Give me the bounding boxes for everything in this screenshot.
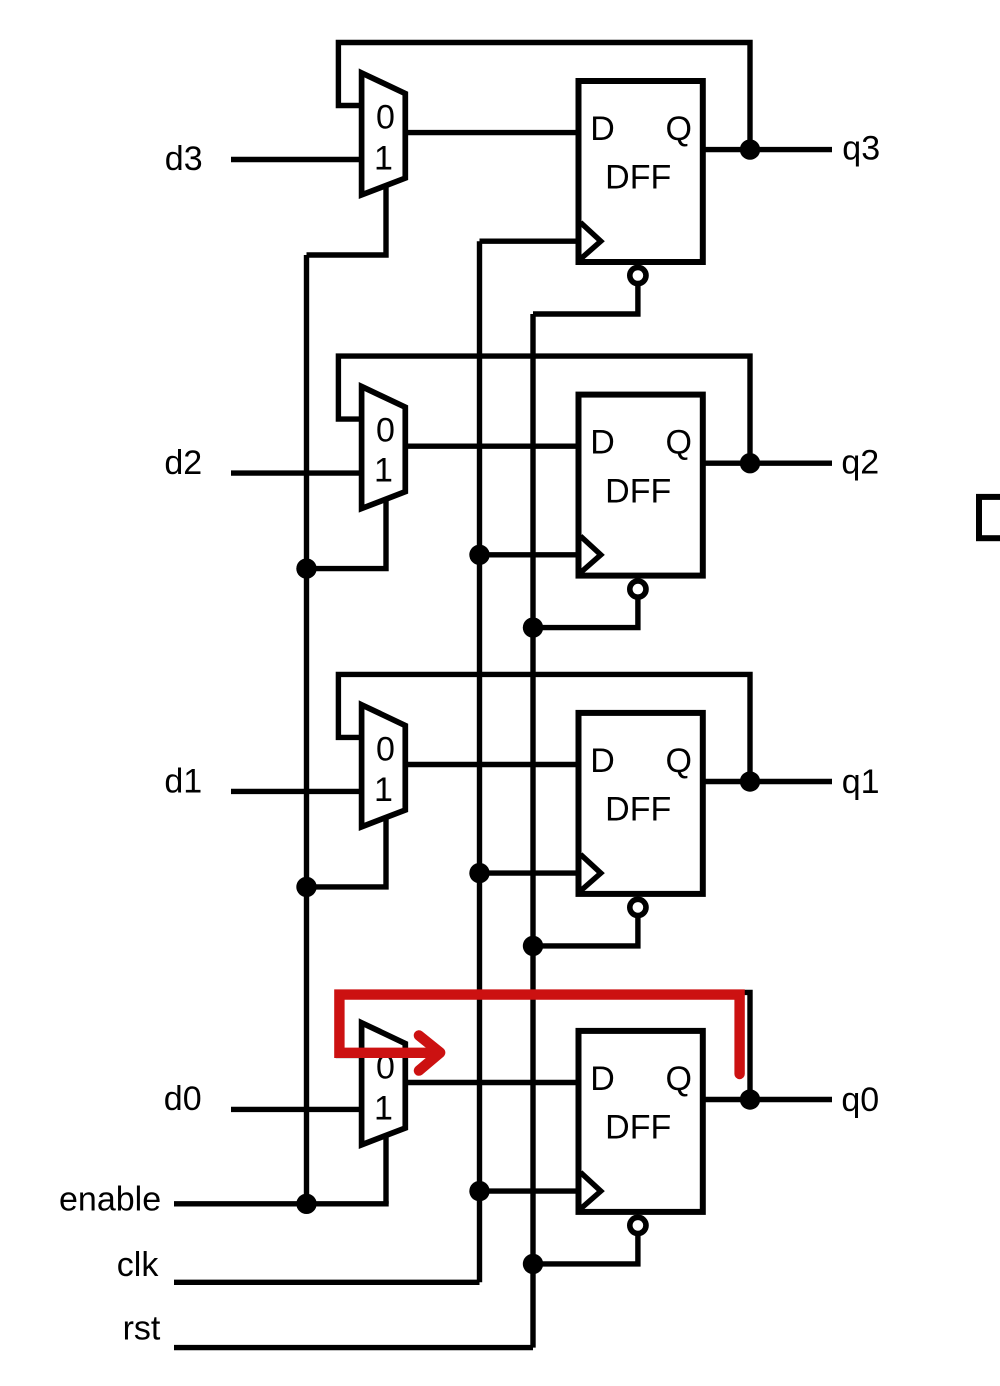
wire: U1 Q output to q1	[703, 779, 832, 784]
wire: rst trunk vertical	[530, 314, 535, 1348]
mux M1 (2:1 multiplexer)	[362, 705, 406, 827]
junction: clk trunk to U1 branch	[469, 863, 489, 883]
wire: U2 reset stem to rst line	[533, 594, 638, 628]
svg-text:Q: Q	[665, 424, 691, 462]
svg-text:rst: rst	[123, 1310, 161, 1348]
wire: mux M0 select down to enable line	[383, 1133, 388, 1203]
wire: U3 reset stem to rst line	[533, 280, 638, 314]
junction: rst trunk to U2 branch	[523, 617, 543, 637]
mux M3 (2:1 multiplexer)	[362, 73, 406, 195]
svg-text:Q: Q	[665, 110, 691, 148]
clock chevron of U1	[581, 854, 601, 891]
wire: mux M2 select down to enable line	[307, 497, 387, 568]
svg-text:1: 1	[374, 452, 393, 490]
wire: enable input	[174, 1201, 389, 1206]
reset bubble of U0 (active-low)	[630, 1217, 646, 1233]
red highlight: arrowhead into mux M0 input 0	[419, 1035, 440, 1070]
flip-flop U3 (DFF)	[579, 81, 703, 262]
svg-text:DFF: DFF	[605, 1109, 671, 1147]
wire: mux M1 select down to enable line	[307, 815, 387, 887]
wire: mux M3 select down to enable line	[307, 184, 387, 256]
wire: q2 feedback loop (Q up and around to mux M2 input 0)	[338, 356, 750, 463]
svg-text:DFF: DFF	[605, 791, 671, 829]
wire: mux M0 output to U0 pin D	[405, 1080, 578, 1085]
svg-text:d1: d1	[164, 763, 202, 801]
svg-text:d3: d3	[165, 140, 203, 178]
wire: U3 Q output to q3	[703, 147, 832, 152]
reset bubble of U1 (active-low)	[630, 899, 646, 915]
wire: q1 feedback loop (Q up and around to mux M1 input 0)	[338, 674, 750, 781]
wire: clk branch to U0 clock pin	[480, 1188, 579, 1193]
svg-text:1: 1	[374, 140, 393, 178]
wire: U0 Q output to q0	[703, 1097, 832, 1102]
wire: d0 input	[231, 1107, 362, 1112]
wire: d2 input	[231, 470, 362, 475]
reset bubble of U3 (active-low)	[630, 267, 646, 283]
wire: U0 reset stem to rst line	[533, 1230, 638, 1264]
wire: clk trunk vertical	[477, 241, 482, 1282]
wire: q0 feedback loop (Q up and around to mux M0 input 0)	[338, 992, 750, 1099]
mux M0 (2:1 multiplexer)	[362, 1023, 406, 1145]
svg-text:D: D	[590, 1060, 615, 1098]
svg-text:0: 0	[376, 412, 395, 450]
junction: clk trunk to U0 branch	[469, 1181, 489, 1201]
flip-flop U0 (DFF)	[579, 1031, 703, 1212]
svg-text:DFF: DFF	[605, 472, 671, 510]
clock chevron of U0	[581, 1172, 601, 1209]
junction: rst trunk to U0 branch	[523, 1254, 543, 1274]
junction: enable input to trunk	[296, 1194, 316, 1214]
wire: enable trunk vertical	[304, 255, 309, 1204]
svg-text:d0: d0	[164, 1080, 202, 1118]
clock chevron of U3	[581, 223, 601, 260]
svg-text:q3: q3	[842, 129, 880, 167]
wire: clk branch to U2 clock pin	[480, 552, 579, 557]
junction: q3 node	[740, 139, 760, 159]
svg-text:D: D	[590, 742, 615, 780]
wire: d1 input	[231, 789, 362, 794]
wire: rst input	[174, 1345, 533, 1350]
svg-text:clk: clk	[117, 1246, 160, 1284]
wire: U2 Q output to q2	[703, 461, 832, 466]
svg-text:Q: Q	[665, 742, 691, 780]
wire: mux M3 output to U3 pin D	[405, 130, 578, 135]
svg-text:D: D	[590, 110, 615, 148]
svg-text:d2: d2	[164, 444, 202, 482]
wire: clk input	[174, 1280, 480, 1285]
svg-text:0: 0	[376, 99, 395, 137]
svg-text:DFF: DFF	[605, 159, 671, 197]
wire: clk branch to U1 clock pin	[480, 870, 579, 875]
svg-text:q1: q1	[842, 763, 880, 801]
svg-text:q2: q2	[841, 444, 879, 482]
svg-text:1: 1	[374, 1090, 393, 1128]
svg-text:Q: Q	[665, 1060, 691, 1098]
wire: d3 input	[231, 157, 362, 162]
junction: rst trunk to U1 branch	[523, 936, 543, 956]
junction: enable to M2 select	[296, 558, 316, 578]
wire: clk branch to U3 clock pin	[480, 238, 579, 243]
partial component box cut off at right edge	[979, 497, 1000, 538]
flip-flop U2 (DFF)	[579, 395, 703, 576]
svg-text:enable: enable	[59, 1180, 161, 1218]
junction: enable to M1 select	[296, 877, 316, 897]
reset bubble of U2 (active-low)	[630, 581, 646, 597]
junction: clk trunk to U2 branch	[469, 545, 489, 565]
red highlight: q0 feedback path (Q0 around to M0 input 0)	[339, 995, 739, 1074]
wire: U1 reset stem to rst line	[533, 912, 638, 946]
svg-text:0: 0	[376, 730, 395, 768]
junction: q1 node	[740, 771, 760, 791]
wire: q3 feedback loop (Q up and around to mux M3 input 0)	[338, 43, 750, 150]
wire: mux M1 output to U1 pin D	[405, 762, 578, 767]
flip-flop U1 (DFF)	[579, 713, 703, 894]
clock chevron of U2	[581, 536, 601, 573]
mux M2 (2:1 multiplexer)	[362, 387, 406, 509]
svg-text:D: D	[590, 424, 615, 462]
wire: mux M2 output to U2 pin D	[405, 444, 578, 449]
svg-text:q0: q0	[841, 1081, 879, 1119]
svg-text:1: 1	[374, 771, 393, 809]
junction: q2 node	[740, 453, 760, 473]
junction: q0 node	[740, 1089, 760, 1109]
